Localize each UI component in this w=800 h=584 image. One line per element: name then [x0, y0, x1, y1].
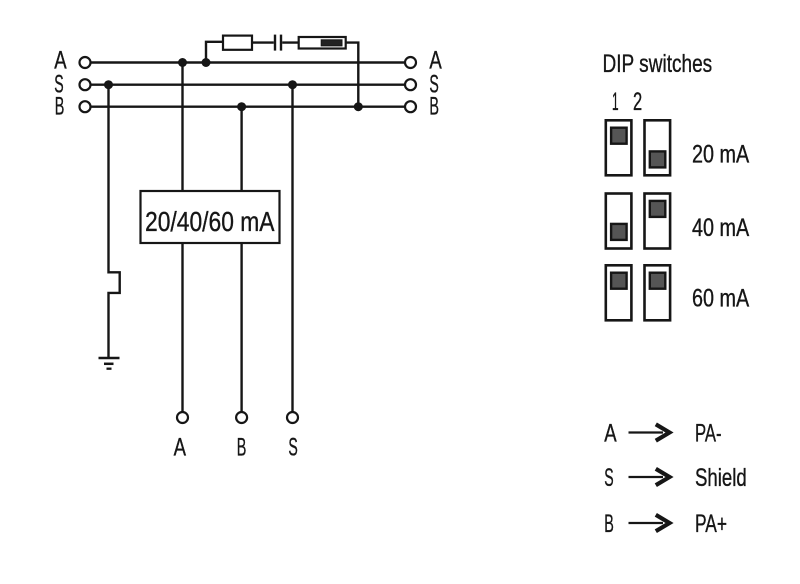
terminal S right	[405, 79, 416, 90]
DIP switch row 1 switch 1 (on)	[606, 120, 632, 175]
junction on bus A at branch	[202, 58, 211, 67]
legend arrow A to PA-	[629, 424, 670, 440]
DIP switch row 2 switch 2 (on)	[645, 194, 671, 249]
DIP switch row 1 switch 2 (off)	[645, 120, 671, 175]
svg-text:S: S	[604, 464, 613, 492]
wire S to ground with isolation jog	[109, 85, 120, 357]
wire A vertical drop to bottom terminal A	[181, 63, 183, 413]
wire B vertical drop to bottom terminal B	[240, 107, 242, 412]
svg-text:40 mA: 40 mA	[692, 214, 749, 242]
DIP switch row 3 switch 2 (on)	[645, 265, 671, 320]
fuse F1	[299, 37, 346, 49]
DIP switch row 3 switch 1 (on)	[606, 265, 632, 320]
ground symbol	[99, 358, 120, 369]
svg-text:60 mA: 60 mA	[692, 285, 749, 313]
terminal B bottom	[236, 412, 247, 423]
svg-text:20 mA: 20 mA	[692, 141, 749, 169]
svg-text:PA+: PA+	[695, 510, 727, 538]
svg-text:A: A	[174, 434, 187, 462]
legend arrow S to Shield	[629, 469, 670, 485]
wire capacitor to fuse	[282, 41, 299, 43]
svg-text:DIP switches: DIP switches	[603, 50, 713, 78]
junction on bus A at wire A drop	[178, 58, 187, 67]
svg-text:20/40/60 mA: 20/40/60 mA	[145, 206, 275, 237]
svg-text:B: B	[604, 510, 614, 538]
svg-text:PA-: PA-	[695, 420, 722, 448]
legend arrow B to PA+	[629, 515, 670, 531]
svg-text:2: 2	[633, 88, 642, 116]
capacitor C1	[275, 35, 281, 51]
terminal S bottom	[287, 412, 298, 423]
wire fuse down to bus B	[346, 43, 359, 107]
wire resistor to capacitor	[252, 41, 274, 43]
terminal B left	[80, 101, 91, 112]
wire S vertical drop to bottom terminal S	[291, 85, 293, 412]
terminal A bottom	[177, 412, 188, 423]
wire bus A horizontal	[88, 61, 406, 63]
terminal A right	[405, 57, 416, 68]
terminal B right	[405, 101, 416, 112]
svg-text:Shield: Shield	[695, 464, 747, 492]
wire bus S horizontal	[88, 83, 406, 85]
resistor R1	[223, 36, 252, 50]
svg-text:1: 1	[612, 88, 619, 116]
svg-text:B: B	[237, 434, 247, 462]
terminal A left	[80, 57, 91, 68]
junction on bus B at branch return	[354, 102, 363, 111]
junction on bus S at wire S drop	[288, 80, 297, 89]
junction on bus B at wire B drop	[237, 102, 246, 111]
terminal S left	[80, 79, 91, 90]
svg-text:S: S	[288, 434, 297, 462]
DIP switch row 2 switch 1 (off)	[606, 194, 632, 249]
module box 20/40/60 mA	[141, 191, 280, 243]
junction on bus S at ground wire	[104, 80, 113, 89]
svg-text:B: B	[55, 93, 65, 121]
svg-text:B: B	[429, 93, 439, 121]
wire bus B horizontal	[88, 105, 406, 107]
svg-text:A: A	[604, 420, 617, 448]
wire branch up from bus A to RC protection branch	[206, 42, 223, 63]
